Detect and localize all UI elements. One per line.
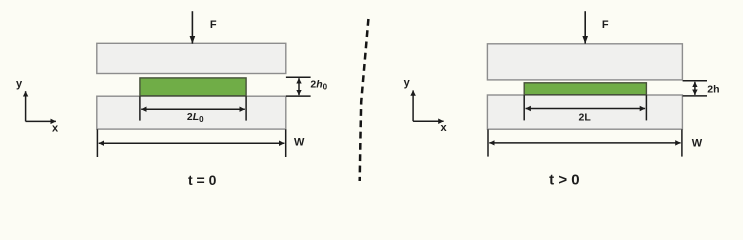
svg-text:y: y	[404, 77, 411, 89]
svg-text:2h: 2h	[707, 83, 719, 95]
svg-text:F: F	[602, 19, 609, 31]
svg-text:2L: 2L	[579, 112, 592, 124]
svg-text:W: W	[294, 136, 305, 148]
svg-text:y: y	[16, 78, 23, 90]
svg-text:t > 0: t > 0	[549, 171, 579, 188]
svg-text:x: x	[440, 122, 447, 134]
svg-text:x: x	[52, 123, 59, 135]
svg-text:t = 0: t = 0	[188, 172, 217, 188]
svg-text:W: W	[692, 137, 703, 149]
svg-text:F: F	[210, 19, 217, 31]
